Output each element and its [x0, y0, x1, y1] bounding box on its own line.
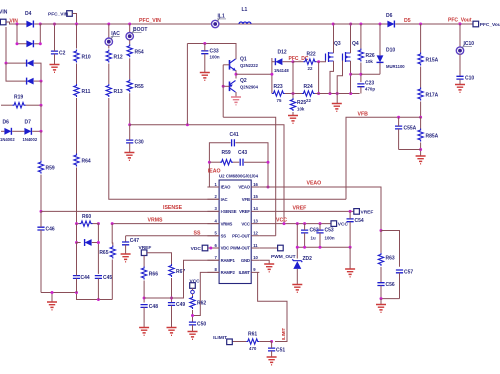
wire pin12 PFC-OUT — [259, 235, 275, 237]
wire — [381, 298, 400, 300]
wire comp loop — [209, 143, 230, 187]
wire top bus — [40, 23, 333, 25]
net label SS — [194, 230, 201, 236]
ground — [288, 116, 298, 124]
wire — [40, 131, 42, 160]
node bridge-row1-right — [39, 23, 42, 26]
node VCC-C30 — [128, 123, 131, 126]
wire — [129, 24, 131, 33]
wire — [1, 130, 4, 132]
svg-text:R66: R66 — [149, 272, 158, 278]
wire — [129, 40, 131, 45]
capacitor C56 — [377, 282, 394, 299]
node VRMS-R65 — [111, 222, 114, 225]
svg-text:C43: C43 — [238, 150, 247, 156]
node D-row-l — [75, 241, 78, 244]
resistor R66 — [141, 267, 158, 280]
svg-text:22: 22 — [308, 66, 313, 71]
svg-text:C56: C56 — [386, 282, 395, 288]
node bridge-row1-left — [16, 23, 19, 26]
wire — [399, 149, 421, 151]
svg-text:R12: R12 — [114, 55, 123, 61]
capacitor C2 — [51, 24, 66, 64]
node PFC_DC — [292, 60, 295, 63]
wire — [129, 58, 131, 79]
net label PFC_DC — [289, 56, 309, 62]
wire PFC-OUT up — [223, 117, 276, 236]
svg-text:R63: R63 — [386, 256, 395, 262]
resistor R62 — [190, 296, 207, 309]
svg-text:VFB: VFB — [242, 197, 250, 202]
svg-text:R10: R10 — [82, 55, 91, 61]
wire — [111, 260, 113, 300]
node bridge-row2-right — [39, 42, 42, 45]
wire — [76, 98, 78, 154]
node VFB-C55A — [397, 116, 400, 119]
node VCC-C53 — [319, 222, 322, 225]
svg-text:VCC: VCC — [338, 222, 349, 228]
svg-text:1N4002: 1N4002 — [23, 137, 38, 142]
wire — [125, 236, 127, 242]
svg-text:R24: R24 — [304, 84, 313, 90]
node bus-R26 — [359, 23, 362, 26]
svg-text:Q1: Q1 — [240, 57, 247, 63]
svg-text:SS: SS — [221, 234, 227, 239]
svg-text:Q4: Q4 — [352, 41, 359, 47]
wire IAC net — [109, 98, 219, 199]
wire — [321, 61, 326, 62]
node bus-C2 — [53, 23, 56, 26]
resistor R13 — [106, 84, 123, 97]
diode D12 — [274, 50, 289, 73]
node Vout-R15A — [419, 23, 422, 26]
svg-text:R11: R11 — [82, 89, 91, 95]
svg-text:R19: R19 — [14, 95, 23, 101]
wire pin13 VCC — [259, 223, 331, 225]
resistor R59b — [220, 150, 233, 165]
wire — [209, 161, 220, 163]
svg-text:1u: 1u — [311, 236, 316, 241]
node R61-C51 — [270, 340, 273, 343]
wire top bus right — [333, 23, 391, 25]
wire — [318, 62, 320, 94]
wire — [244, 161, 268, 163]
svg-text:MUR1100: MUR1100 — [386, 64, 405, 69]
capacitor C43 — [238, 150, 247, 166]
resistor R65 — [99, 246, 115, 259]
node Q3-gate — [317, 60, 320, 63]
svg-text:1N4002: 1N4002 — [0, 137, 15, 142]
svg-text:D4: D4 — [25, 11, 32, 17]
svg-text:C45: C45 — [103, 275, 112, 281]
resistor R23 — [272, 84, 285, 103]
wire VCC line — [130, 125, 284, 224]
wire — [459, 79, 461, 84]
svg-text:C48: C48 — [149, 304, 158, 310]
node bus-BOOT — [128, 23, 131, 26]
svg-text:C57: C57 — [404, 269, 413, 275]
wire — [420, 117, 422, 128]
wire — [108, 24, 110, 38]
svg-text:R17A: R17A — [426, 93, 439, 99]
capacitor C33 — [201, 44, 220, 73]
wire — [192, 310, 194, 322]
wire RAMP1 — [144, 260, 219, 298]
node rail-C54 — [349, 246, 352, 249]
node emitters — [235, 73, 238, 76]
capacitor C45 — [95, 275, 113, 300]
wire VFB line — [346, 117, 421, 199]
svg-text:75: 75 — [277, 98, 282, 103]
wire Q3 drain — [333, 24, 335, 53]
wire — [17, 24, 27, 44]
wire pin5 SS — [126, 235, 220, 237]
node bridge-row2-left — [16, 42, 19, 45]
ground — [267, 357, 277, 365]
wire — [40, 105, 42, 131]
svg-text:PFC_Vout: PFC_Vout — [448, 18, 472, 24]
net label ILIMIT-v — [281, 327, 286, 340]
svg-text:100n: 100n — [325, 236, 335, 241]
diode D4 — [25, 11, 33, 28]
wire — [272, 61, 275, 63]
ground — [455, 85, 465, 93]
svg-text:Q2N2222: Q2N2222 — [240, 63, 259, 68]
node R67-C49 — [170, 297, 173, 300]
svg-text:Q2: Q2 — [240, 78, 247, 84]
svg-text:GND: GND — [241, 258, 250, 263]
svg-text:C41: C41 — [230, 132, 239, 138]
diode D11 — [85, 239, 92, 246]
ground — [167, 328, 177, 336]
svg-text:I-SENSE: I-SENSE — [221, 209, 237, 214]
svg-text:13: 13 — [253, 218, 258, 223]
ground — [139, 328, 149, 336]
net label VCC — [276, 217, 287, 223]
node R66-C48 — [143, 297, 146, 300]
svg-text:PWM-OUT: PWM-OUT — [230, 246, 250, 251]
diode D5 — [386, 13, 394, 28]
svg-text:ZD2: ZD2 — [303, 256, 313, 262]
wire — [395, 23, 473, 25]
wire — [316, 61, 321, 63]
wire — [360, 63, 362, 83]
diode D7 — [23, 120, 38, 142]
wire — [108, 45, 110, 49]
diode D4C — [27, 60, 34, 67]
svg-text:C51: C51 — [276, 348, 285, 354]
wire bottom rail — [41, 293, 112, 300]
wire — [380, 267, 382, 283]
node bus-D10 — [379, 23, 382, 26]
wire — [459, 54, 461, 76]
node Q2-base — [222, 85, 225, 88]
svg-text:D6: D6 — [386, 13, 393, 19]
wire — [77, 242, 81, 244]
resistor R11 — [74, 84, 91, 97]
svg-text:C50: C50 — [197, 322, 206, 328]
svg-text:10k: 10k — [366, 59, 374, 64]
svg-text:R64: R64 — [82, 159, 91, 165]
capacitor C53 — [316, 224, 334, 248]
wire — [361, 73, 380, 75]
node VCC-C62 — [303, 222, 306, 225]
capacitor C55A — [395, 117, 417, 149]
wire — [223, 85, 229, 87]
net label PFC_VIN — [139, 18, 161, 24]
svg-text:PFC_VIN: PFC_VIN — [48, 12, 69, 18]
svg-text:C53: C53 — [325, 228, 334, 234]
svg-text:VRMS: VRMS — [148, 217, 164, 223]
port PWM_OUT — [271, 245, 296, 260]
node VCC-up — [283, 222, 286, 225]
probe IL1 — [212, 14, 227, 28]
capacitor C44 — [73, 243, 90, 293]
wire cap rail — [297, 246, 350, 248]
svg-text:IAC: IAC — [221, 197, 228, 202]
node bus-R10 — [75, 23, 78, 26]
ground — [292, 285, 302, 293]
ground — [121, 254, 131, 262]
wire — [235, 92, 237, 97]
wire — [349, 247, 351, 268]
wire pin10 GND — [259, 260, 269, 263]
wire — [97, 224, 99, 274]
net label VREF — [293, 205, 307, 211]
node VRMS-C45 — [97, 222, 100, 225]
node rail-C53 — [319, 246, 322, 249]
node ISENSE-left — [40, 210, 43, 213]
wire pin3 ISENSE — [41, 210, 219, 212]
wire emitter out — [236, 73, 272, 75]
node R23-R24 — [292, 92, 295, 95]
svg-text:PFC-OUT: PFC-OUT — [232, 234, 250, 239]
ground — [264, 264, 274, 272]
node VCC-railtap — [186, 123, 189, 126]
resistor R55 — [127, 79, 144, 92]
wire — [32, 130, 41, 132]
svg-text:PFC_VIN: PFC_VIN — [139, 18, 161, 24]
node R19-right — [40, 104, 43, 107]
svg-text:ILIMIT: ILIMIT — [281, 327, 286, 340]
node rail-C62 — [303, 246, 306, 249]
svg-text:RAMP2: RAMP2 — [221, 270, 236, 275]
wire pin9 ILIMIT — [258, 272, 287, 341]
op-amp U2 CM6800 controller — [207, 174, 259, 284]
wire — [34, 23, 40, 25]
svg-text:D7: D7 — [25, 120, 32, 126]
svg-text:C49: C49 — [176, 302, 185, 308]
ground — [416, 156, 426, 164]
node VEAO-comp — [267, 186, 270, 189]
ground — [376, 305, 386, 313]
resistor R59 — [38, 161, 55, 174]
net label VRMS — [148, 217, 164, 223]
svg-text:D12: D12 — [278, 50, 287, 56]
svg-text:VRMS: VRMS — [221, 221, 233, 226]
resistor R15A — [418, 53, 439, 66]
diode D4B — [26, 40, 33, 47]
svg-text:VREF: VREF — [293, 205, 307, 211]
port VCC-b — [190, 279, 201, 297]
transistor Q3 — [326, 41, 341, 62]
svg-text:11: 11 — [253, 243, 258, 248]
node R63-gnd — [380, 297, 383, 300]
ground — [332, 94, 342, 112]
svg-text:R25: R25 — [297, 100, 306, 106]
wire — [459, 24, 461, 47]
node rail-C44 — [75, 291, 78, 294]
wire — [6, 62, 27, 64]
svg-text:R59: R59 — [46, 166, 55, 172]
wire pin15 VFB — [259, 198, 346, 200]
svg-text:C2: C2 — [59, 51, 66, 57]
node src-Q4 — [349, 92, 352, 95]
wire — [186, 44, 188, 125]
node src-gnd — [336, 92, 339, 95]
ground — [47, 291, 57, 310]
wire — [283, 61, 293, 63]
wire — [380, 299, 382, 304]
svg-text:VREF: VREF — [139, 245, 152, 251]
wire — [420, 67, 422, 88]
node R85A-C55A — [419, 148, 422, 151]
svg-text:R85A: R85A — [426, 134, 439, 140]
svg-text:L1: L1 — [242, 7, 248, 13]
transistor Q4 — [343, 41, 359, 62]
ground — [231, 97, 241, 105]
port VREF-r — [354, 209, 374, 216]
wire — [235, 143, 268, 187]
node bridge-out — [40, 80, 43, 83]
diode D10 — [377, 24, 406, 74]
wire pin1 — [209, 186, 219, 188]
port VREF-b — [139, 245, 152, 267]
transistor Q1 — [230, 57, 259, 71]
svg-text:VEAO: VEAO — [238, 185, 250, 190]
ground — [345, 269, 355, 277]
capacitor C46 — [37, 211, 54, 292]
svg-text:VIN: VIN — [0, 10, 8, 16]
svg-text:R62: R62 — [197, 301, 206, 307]
wire VEAO — [259, 187, 381, 231]
svg-text:14: 14 — [253, 206, 258, 211]
wire — [360, 24, 362, 49]
net label VEAO — [307, 180, 322, 186]
diode D4D — [27, 78, 34, 85]
svg-text:U2 CM6800G/01/04: U2 CM6800G/01/04 — [219, 174, 259, 179]
ground — [50, 65, 60, 73]
capacitor C30 — [126, 125, 144, 152]
wire — [223, 58, 236, 65]
svg-text:C10: C10 — [465, 76, 474, 82]
svg-text:100n: 100n — [210, 55, 220, 60]
svg-text:R55: R55 — [135, 84, 144, 90]
svg-text:C55A: C55A — [404, 126, 417, 132]
port VIN — [0, 10, 17, 25]
svg-text:R59: R59 — [222, 150, 231, 156]
capacitor C47 — [122, 238, 139, 254]
node VEAO-branch — [380, 229, 383, 232]
svg-text:C54: C54 — [355, 218, 364, 224]
svg-text:C46: C46 — [46, 227, 55, 233]
node ZD2-rail — [296, 246, 299, 249]
resistor R22 — [303, 52, 316, 72]
capacitor C51 — [268, 342, 285, 357]
wire bases — [222, 65, 224, 117]
net label PFC_Vout — [448, 18, 472, 24]
svg-text:C47: C47 — [130, 238, 139, 244]
capacitor C57 — [396, 269, 413, 298]
wire Q4 gate — [337, 61, 342, 94]
ground — [188, 332, 198, 340]
resistor R25 — [290, 98, 306, 112]
node Q4src-row — [349, 73, 352, 76]
node VFB-R17A — [419, 116, 422, 119]
node comp-left — [208, 161, 211, 164]
wire — [129, 93, 131, 125]
wire — [39, 24, 41, 44]
node VCC-ZD2 — [296, 222, 299, 225]
node VRMS-left — [75, 222, 78, 225]
capacitor C10 — [456, 76, 474, 82]
resistor R54 — [127, 44, 144, 57]
resistor R85A — [418, 129, 439, 142]
node bus-Q3 — [332, 23, 335, 26]
wire — [259, 341, 271, 343]
wire — [34, 80, 41, 82]
svg-text:VREF: VREF — [361, 209, 374, 215]
net label IEAO — [208, 169, 221, 175]
svg-text:VEAO: VEAO — [307, 180, 322, 186]
wire — [271, 58, 273, 94]
wire — [351, 73, 361, 75]
svg-text:PFC_Vout: PFC_Vout — [480, 22, 500, 28]
svg-text:R54: R54 — [135, 49, 144, 55]
svg-text:PWM_OUT: PWM_OUT — [271, 254, 296, 260]
svg-text:C44: C44 — [81, 275, 90, 281]
wire C33 rail — [187, 44, 236, 59]
probe IAC — [105, 31, 120, 45]
svg-text:R22: R22 — [307, 52, 316, 58]
port VDC — [191, 245, 219, 252]
node gate-row — [317, 92, 320, 95]
svg-text:15: 15 — [253, 194, 258, 199]
wire — [76, 64, 78, 85]
svg-text:VDC: VDC — [191, 246, 202, 252]
node src-Q3 — [329, 92, 332, 95]
svg-text:22: 22 — [306, 98, 311, 103]
resistor R64 — [74, 154, 91, 167]
svg-text:R23: R23 — [274, 84, 283, 90]
net label D5 — [404, 18, 411, 24]
svg-text:D6: D6 — [3, 120, 10, 126]
diode D6 — [0, 120, 15, 142]
node bridge-row34 — [5, 62, 8, 65]
port PFC_VIN — [48, 11, 77, 24]
wire — [40, 175, 42, 212]
capacitor C41 — [230, 132, 239, 146]
svg-text:R61: R61 — [248, 332, 257, 338]
wire — [92, 242, 99, 244]
wire — [293, 61, 303, 63]
net label VFB — [358, 111, 369, 117]
svg-text:10k: 10k — [297, 107, 305, 112]
svg-text:IEAO: IEAO — [221, 185, 232, 190]
wire — [111, 224, 114, 246]
wire pin4 VRMS — [112, 223, 219, 225]
wire — [147, 253, 172, 264]
